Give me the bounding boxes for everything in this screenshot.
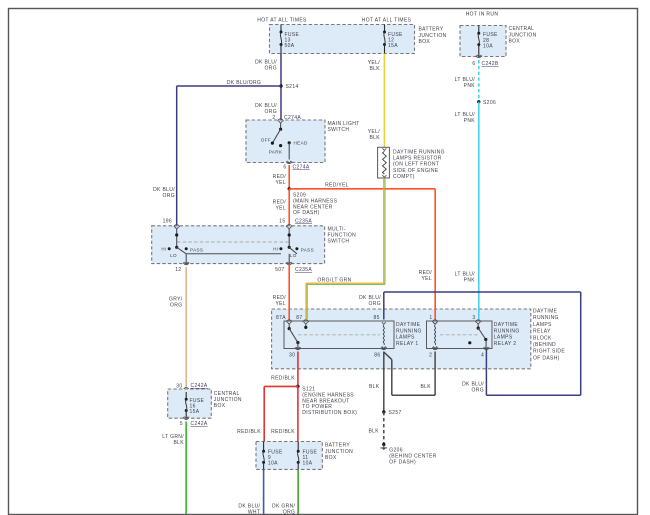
svg-text:BLK: BLK	[420, 384, 431, 390]
svg-text:RELAY 2: RELAY 2	[494, 341, 517, 347]
svg-text:3: 3	[472, 315, 475, 321]
svg-text:BATTERY: BATTERY	[419, 27, 444, 33]
svg-text:6: 6	[283, 165, 286, 171]
svg-text:OF DASH): OF DASH)	[533, 355, 560, 361]
svg-text:RUNNING: RUNNING	[396, 328, 422, 334]
svg-text:JUNCTION: JUNCTION	[214, 397, 242, 403]
svg-text:6: 6	[472, 61, 475, 67]
svg-text:ORG: ORG	[170, 303, 182, 309]
svg-text:ORG: ORG	[369, 301, 381, 307]
svg-text:50A: 50A	[285, 43, 295, 49]
svg-text:ORG: ORG	[163, 193, 175, 199]
svg-text:HOT AT ALL TIMES: HOT AT ALL TIMES	[257, 18, 307, 24]
svg-text:12: 12	[175, 267, 181, 273]
svg-text:30: 30	[289, 353, 295, 359]
svg-text:C274A: C274A	[293, 165, 310, 171]
svg-text:OF DASH): OF DASH)	[389, 460, 416, 466]
svg-text:HOT AT ALL TIMES: HOT AT ALL TIMES	[362, 18, 412, 24]
svg-text:PNK: PNK	[464, 83, 476, 89]
svg-text:CENTRAL: CENTRAL	[509, 26, 535, 32]
svg-text:BLK: BLK	[369, 135, 380, 141]
svg-text:COMPT): COMPT)	[393, 174, 415, 180]
svg-text:15A: 15A	[190, 409, 200, 415]
svg-text:RED/BLK: RED/BLK	[271, 429, 295, 435]
svg-text:87A: 87A	[276, 315, 286, 321]
svg-text:DAYTIME: DAYTIME	[396, 322, 421, 328]
svg-text:DAYTIME: DAYTIME	[494, 322, 519, 328]
svg-text:YEL: YEL	[275, 206, 286, 212]
svg-text:C235A: C235A	[295, 267, 312, 273]
svg-text:ORG: ORG	[265, 66, 277, 72]
svg-text:HI: HI	[161, 246, 166, 251]
svg-text:JUNCTION: JUNCTION	[325, 449, 353, 455]
svg-text:JUNCTION: JUNCTION	[509, 32, 537, 38]
svg-text:BLK: BLK	[173, 440, 184, 446]
svg-text:LAMPS: LAMPS	[396, 335, 415, 341]
svg-text:(BEHIND: (BEHIND	[533, 342, 556, 348]
svg-text:ORG: ORG	[472, 388, 484, 394]
svg-text:PNK: PNK	[464, 118, 476, 124]
svg-text:10A: 10A	[268, 460, 278, 466]
svg-text:RIGHT SIDE: RIGHT SIDE	[533, 349, 565, 355]
svg-text:YEL: YEL	[275, 180, 286, 186]
svg-text:DAYTIME RUNNING: DAYTIME RUNNING	[393, 150, 445, 156]
svg-text:LO: LO	[170, 253, 177, 258]
svg-text:BOX: BOX	[325, 455, 337, 461]
svg-text:LAMPS: LAMPS	[533, 322, 552, 328]
svg-text:BOX: BOX	[509, 39, 521, 45]
svg-text:SWITCH: SWITCH	[328, 127, 350, 133]
svg-text:BATTERY: BATTERY	[325, 443, 350, 449]
svg-text:507: 507	[275, 267, 284, 273]
svg-text:15: 15	[279, 219, 285, 225]
svg-text:C235A: C235A	[295, 219, 312, 225]
svg-text:RED/BLK: RED/BLK	[237, 429, 261, 435]
svg-text:2: 2	[429, 353, 432, 359]
svg-text:OF DASH): OF DASH)	[293, 210, 320, 216]
svg-text:BLK: BLK	[368, 429, 379, 435]
svg-text:CENTRAL: CENTRAL	[214, 391, 240, 397]
svg-text:ORG: ORG	[283, 510, 295, 515]
svg-text:4: 4	[481, 353, 484, 359]
svg-text:DISTRIBUTION BOX): DISTRIBUTION BOX)	[302, 410, 357, 416]
svg-text:PNK: PNK	[464, 278, 476, 284]
svg-text:87: 87	[296, 315, 302, 321]
svg-text:1: 1	[429, 315, 432, 321]
svg-text:HI: HI	[273, 246, 278, 251]
svg-text:86: 86	[374, 353, 380, 359]
svg-text:JUNCTION: JUNCTION	[419, 33, 447, 39]
svg-text:BLK: BLK	[369, 384, 380, 390]
svg-text:RUNNING: RUNNING	[533, 315, 559, 321]
svg-text:C242A: C242A	[191, 421, 208, 427]
svg-text:RELAY: RELAY	[533, 329, 551, 335]
svg-text:RELAY 1: RELAY 1	[396, 341, 419, 347]
svg-text:S206: S206	[483, 100, 496, 106]
svg-text:15A: 15A	[388, 43, 398, 49]
svg-text:WHT: WHT	[248, 510, 260, 515]
svg-text:S214: S214	[286, 84, 299, 90]
svg-text:RED/YEL: RED/YEL	[325, 183, 349, 189]
svg-text:C242B: C242B	[482, 61, 499, 67]
svg-text:BOX: BOX	[214, 403, 226, 409]
svg-text:LAMPS: LAMPS	[494, 335, 513, 341]
svg-text:RUNNING: RUNNING	[494, 328, 520, 334]
svg-text:(ON LEFT FRONT: (ON LEFT FRONT	[393, 162, 439, 168]
svg-text:BLOCK: BLOCK	[533, 335, 552, 341]
svg-text:196: 196	[163, 219, 172, 225]
svg-text:DAYTIME: DAYTIME	[533, 309, 558, 315]
svg-text:BLK: BLK	[369, 66, 380, 72]
svg-text:S257: S257	[389, 410, 402, 416]
svg-text:SIDE OF ENGINE: SIDE OF ENGINE	[393, 168, 439, 174]
svg-text:C242A: C242A	[191, 383, 208, 389]
svg-text:PASS: PASS	[190, 247, 203, 252]
svg-text:PARK: PARK	[269, 150, 283, 155]
svg-text:SWITCH: SWITCH	[328, 239, 350, 245]
svg-text:10A: 10A	[303, 460, 313, 466]
svg-text:DK BLU/ORG: DK BLU/ORG	[227, 80, 261, 86]
svg-text:ORG/LT GRN: ORG/LT GRN	[317, 278, 351, 284]
svg-text:10A: 10A	[483, 44, 493, 50]
svg-text:PASS: PASS	[301, 247, 314, 252]
svg-text:YEL: YEL	[275, 301, 286, 307]
svg-text:85: 85	[374, 315, 380, 321]
svg-text:HOT IN RUN: HOT IN RUN	[466, 12, 499, 18]
svg-text:OFF: OFF	[261, 138, 271, 143]
svg-text:LAMPS RESISTOR: LAMPS RESISTOR	[393, 156, 442, 162]
svg-text:YEL: YEL	[421, 276, 432, 282]
svg-text:5: 5	[180, 421, 183, 427]
svg-text:BOX: BOX	[419, 39, 431, 45]
svg-text:HEAD: HEAD	[294, 141, 308, 146]
svg-text:RED/BLK: RED/BLK	[271, 376, 295, 382]
